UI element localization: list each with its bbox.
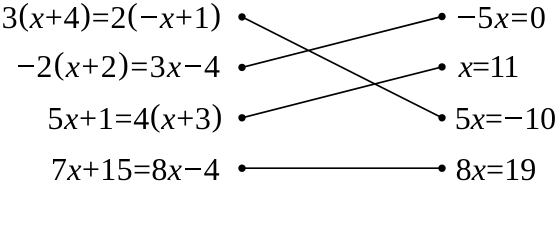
connection line L4 to R4	[242, 167, 442, 169]
left node dot 3	[238, 114, 245, 121]
right node dot 3	[438, 114, 445, 121]
answer row 4 right: 8x=19	[456, 149, 537, 189]
connection line L3 to R2	[242, 67, 442, 118]
equation row 1 left: 3(x+4)=2(-x+1)	[2, 0, 222, 37]
equation row 2 left: -2(x+2)=3x-4	[15, 46, 221, 86]
equation row 3 left: 5x+1=4(x+3)	[47, 98, 223, 138]
left node dot 1	[238, 13, 245, 20]
left node dot 2	[238, 64, 245, 71]
answer row 2 right: x=11	[459, 46, 519, 86]
left node dot 4	[238, 165, 245, 172]
equation row 4 left: 7x+15=8x-4	[51, 149, 220, 189]
answer row 1 right: -5x=0	[456, 0, 548, 37]
connection line L2 to R1	[242, 17, 442, 68]
right node dot 2	[438, 63, 445, 70]
answer row 3 right: 5x=-10	[455, 98, 556, 138]
right node dot 4	[438, 165, 445, 172]
connection line L1 to R3	[242, 17, 442, 118]
right node dot 1	[438, 13, 445, 20]
